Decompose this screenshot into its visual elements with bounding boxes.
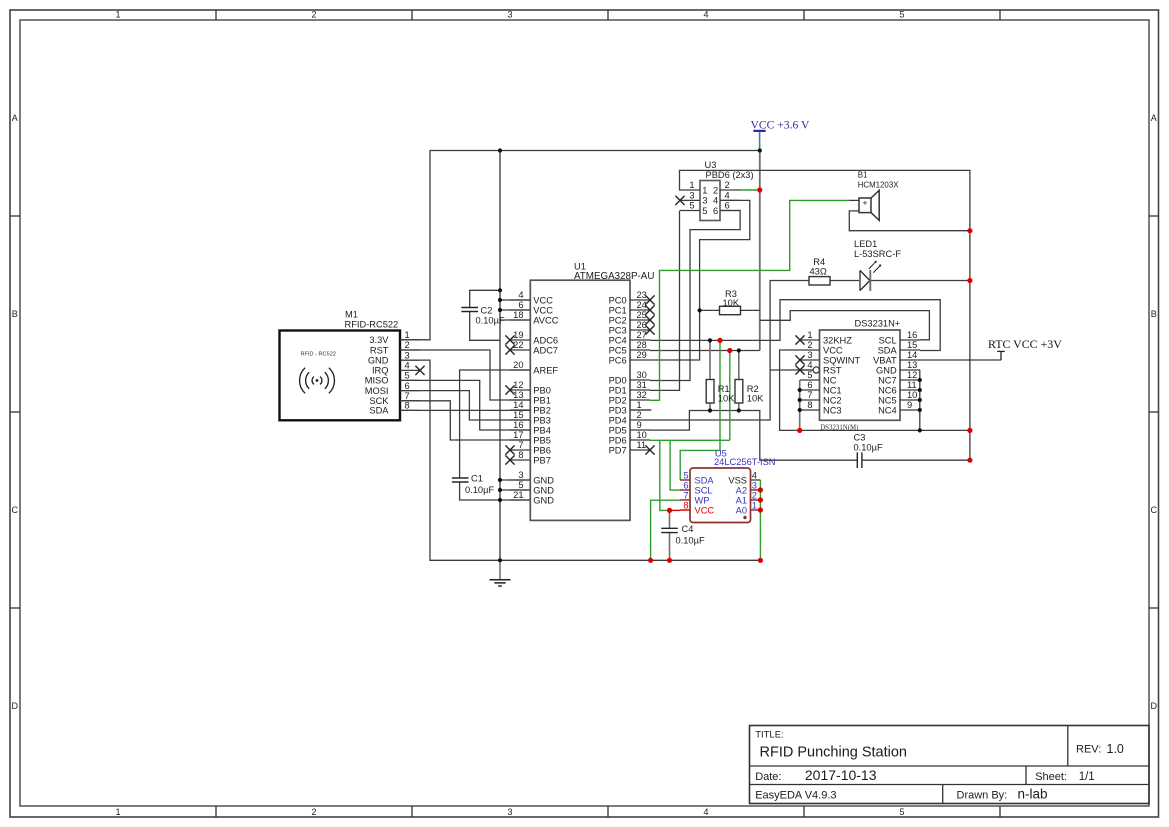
wire B1 negative pin to right rail	[849, 211, 970, 231]
svg-text:10: 10	[637, 430, 647, 440]
svg-text:7: 7	[807, 390, 812, 400]
wire DS3231 VCC down to C3 top rail	[780, 350, 970, 430]
svg-text:9: 9	[637, 420, 642, 430]
capacitor C1 0.10uF	[452, 474, 495, 496]
connector U3 PBD6 (2x3)	[680, 160, 754, 220]
wire U1 AVCC pin18	[500, 319, 530, 321]
wire U1 VCC pin6	[500, 309, 530, 311]
svg-text:8: 8	[807, 400, 812, 410]
svg-text:1: 1	[115, 10, 120, 20]
svg-text:PB0: PB0	[533, 385, 551, 395]
wire red U5 VCC pin8	[670, 509, 681, 511]
M1 antenna icon	[300, 368, 335, 394]
svg-text:26: 26	[637, 320, 647, 330]
svg-text:0.10µF: 0.10µF	[476, 316, 505, 326]
svg-text:U1: U1	[574, 261, 586, 271]
svg-text:RTC VCC +3V: RTC VCC +3V	[988, 337, 1062, 351]
svg-text:MISO: MISO	[365, 376, 389, 386]
resistor R2 10K	[735, 380, 764, 404]
svg-text:C3: C3	[854, 433, 866, 443]
svg-text:D: D	[11, 701, 18, 711]
wire C3 right side to right rail	[862, 459, 970, 461]
svg-text:PC0: PC0	[609, 295, 627, 305]
wire green PC5 riser to PD6 row	[729, 351, 731, 441]
svg-text:2: 2	[405, 340, 410, 350]
svg-text:6: 6	[807, 380, 812, 390]
svg-text:C1: C1	[471, 474, 483, 484]
svg-text:PBD6 (2x3): PBD6 (2x3)	[706, 170, 754, 180]
svg-text:3: 3	[507, 807, 512, 817]
svg-text:4: 4	[713, 196, 718, 206]
svg-text:C: C	[11, 505, 18, 515]
svg-text:16: 16	[907, 330, 917, 340]
svg-text:1: 1	[807, 330, 812, 340]
svg-text:32KHZ: 32KHZ	[823, 335, 852, 345]
wire green drop to U5 VCC junction	[660, 440, 670, 510]
svg-text:RST: RST	[370, 345, 389, 355]
svg-text:4: 4	[752, 471, 757, 481]
resistor R3 10K	[720, 289, 741, 315]
svg-text:NC5: NC5	[878, 395, 897, 405]
svg-text:DS3231N(M): DS3231N(M)	[820, 424, 858, 431]
svg-text:B: B	[1151, 309, 1157, 319]
svg-text:RST: RST	[823, 365, 842, 375]
svg-text:VCC: VCC	[533, 305, 553, 315]
svg-text:30: 30	[637, 370, 647, 380]
svg-text:VCC: VCC	[823, 345, 843, 355]
svg-text:SDA: SDA	[695, 475, 715, 485]
svg-text:27: 27	[637, 330, 647, 340]
svg-text:2: 2	[725, 180, 730, 190]
wire U1 GND pin21	[500, 499, 530, 501]
svg-text:VCC: VCC	[695, 505, 715, 515]
svg-text:4: 4	[703, 10, 708, 20]
svg-text:25: 25	[637, 310, 647, 320]
svg-text:GND: GND	[533, 495, 554, 505]
svg-text:NC: NC	[823, 375, 837, 385]
svg-text:TITLE:: TITLE:	[755, 729, 784, 740]
svg-text:7: 7	[683, 491, 688, 501]
wire U1 AREF to C1	[460, 370, 530, 478]
svg-text:NC7: NC7	[878, 375, 897, 385]
svg-text:1: 1	[405, 330, 410, 340]
svg-text:R4: R4	[813, 257, 825, 267]
wire M1 RST to U1 PB1	[400, 350, 530, 400]
wire green U1 PD2 to B1 buzzer	[650, 200, 850, 400]
resistor R4 43ohm	[809, 257, 830, 285]
svg-text:PB1: PB1	[533, 395, 551, 405]
svg-text:14: 14	[513, 400, 523, 410]
svg-text:U3: U3	[705, 160, 717, 170]
wire green U5 WP row and drop to ground rail	[651, 500, 680, 560]
svg-text:1: 1	[752, 501, 757, 511]
svg-text:PD7: PD7	[609, 445, 627, 455]
svg-text:GND: GND	[533, 475, 554, 485]
svg-text:13: 13	[907, 360, 917, 370]
wire R1 top lead	[709, 340, 711, 379]
svg-text:VCC +3.6 V: VCC +3.6 V	[751, 118, 810, 131]
wire R3 right lead	[741, 309, 760, 311]
svg-text:PB3: PB3	[533, 415, 551, 425]
svg-text:2: 2	[311, 807, 316, 817]
svg-text:n-lab: n-lab	[1018, 787, 1048, 802]
svg-text:23: 23	[637, 290, 647, 300]
wire U5 VSS stub wire	[751, 479, 761, 481]
svg-text:PD1: PD1	[609, 385, 627, 395]
svg-text:1: 1	[637, 400, 642, 410]
U3 no-connect X on pin3	[675, 196, 684, 205]
svg-text:5: 5	[899, 807, 904, 817]
svg-text:D: D	[1150, 701, 1157, 711]
wire R4 right lead to LED1 anode	[830, 280, 860, 282]
svg-text:L-53SRC-F: L-53SRC-F	[854, 249, 901, 259]
svg-text:32: 32	[637, 390, 647, 400]
svg-text:4: 4	[518, 290, 523, 300]
wire U1 PD4 to DS3231 RST riser / R4	[650, 281, 809, 421]
RTC IC DS3231N+	[795, 319, 920, 432]
module M1 RFID-RC522	[280, 310, 421, 421]
svg-text:10: 10	[907, 390, 917, 400]
svg-text:6: 6	[405, 381, 410, 391]
wire U1 PD3 stub wire	[630, 409, 652, 411]
svg-text:0.10µF: 0.10µF	[854, 442, 883, 452]
svg-text:Drawn By:: Drawn By:	[957, 789, 1008, 801]
svg-text:1.0: 1.0	[1107, 742, 1124, 756]
svg-text:SCL: SCL	[695, 485, 713, 495]
svg-text:VBAT: VBAT	[873, 355, 897, 365]
wire green U3 pin2 to VCC rail	[739, 189, 759, 191]
U5 polarity dot	[743, 516, 746, 519]
svg-text:VCC: VCC	[533, 295, 553, 305]
svg-text:A0: A0	[736, 505, 747, 515]
svg-text:C2: C2	[481, 305, 493, 315]
wire DS3231 left NC bus	[799, 380, 801, 430]
svg-text:10K: 10K	[723, 298, 740, 308]
svg-text:PB7: PB7	[533, 455, 551, 465]
svg-text:NC4: NC4	[878, 405, 897, 415]
svg-text:PC1: PC1	[609, 305, 627, 315]
svg-text:B: B	[12, 309, 18, 319]
svg-text:1: 1	[689, 180, 694, 190]
ground	[490, 560, 511, 586]
wire M1 MISO to U1 PB4	[400, 380, 530, 430]
svg-text:5: 5	[807, 370, 812, 380]
svg-text:+: +	[863, 198, 868, 208]
net flag RTC VCC +3V	[988, 337, 1062, 360]
svg-text:3: 3	[689, 191, 694, 201]
svg-text:C4: C4	[682, 524, 694, 534]
svg-text:3: 3	[702, 196, 707, 206]
svg-text:2: 2	[807, 340, 812, 350]
wire U1 PD1 to U3 pin5	[650, 211, 680, 391]
svg-text:PD6: PD6	[609, 435, 627, 445]
wire C1 bottom to rail	[460, 482, 500, 500]
svg-text:Date:: Date:	[755, 771, 781, 783]
svg-text:15: 15	[513, 410, 523, 420]
svg-text:6: 6	[683, 481, 688, 491]
svg-text:43Ω: 43Ω	[810, 266, 827, 276]
wire green PC4/SDA riser down to U5 SDA	[680, 340, 720, 480]
power flag VCC +3.6 V	[751, 118, 810, 150]
svg-text:A: A	[1151, 113, 1157, 123]
svg-text:8: 8	[683, 501, 688, 511]
wire RST branch to DS3231 pin4	[770, 369, 813, 371]
svg-text:PD5: PD5	[609, 425, 627, 435]
svg-text:8: 8	[405, 401, 410, 411]
wire LED1 cathode to right rail	[870, 280, 970, 282]
svg-text:8: 8	[518, 450, 523, 460]
wire U3 pin1 riser, top-right rail and right rail x=970	[680, 170, 970, 460]
svg-text:NC6: NC6	[878, 385, 897, 395]
svg-text:0.10µF: 0.10µF	[676, 535, 705, 545]
svg-text:RFID Punching Station: RFID Punching Station	[760, 744, 908, 760]
svg-text:Sheet:: Sheet:	[1035, 771, 1067, 783]
svg-text:GND: GND	[368, 355, 389, 365]
wire DS3231 GND pin13 down right NC bus	[919, 370, 921, 430]
svg-text:12: 12	[907, 370, 917, 380]
wire VCC net: M1 pin1 3.3V riser and top rail	[400, 151, 760, 340]
wire green U1 PD6 row	[650, 439, 730, 441]
svg-text:PD4: PD4	[609, 415, 627, 425]
svg-text:7: 7	[405, 391, 410, 401]
svg-text:2: 2	[713, 185, 718, 195]
wire C4 top lead	[669, 510, 671, 528]
svg-text:12: 12	[513, 380, 523, 390]
wire VCC rail drop x=760 to R3/PC5	[759, 151, 761, 351]
wire M1 SCK to U1 PB5	[400, 401, 530, 440]
svg-text:AVCC: AVCC	[533, 315, 558, 325]
svg-text:ADC6: ADC6	[533, 335, 558, 345]
svg-text:0.10µF: 0.10µF	[465, 485, 494, 495]
svg-text:B1: B1	[858, 171, 868, 180]
svg-text:3: 3	[807, 350, 812, 360]
EEPROM U5 24LC256T-ISN	[680, 449, 776, 523]
svg-text:10K: 10K	[747, 394, 764, 404]
svg-text:PC2: PC2	[609, 315, 627, 325]
svg-text:REV:: REV:	[1076, 744, 1101, 756]
svg-text:6: 6	[713, 206, 718, 216]
wire green drop to U5 SCL	[670, 440, 680, 490]
wire DS3231 VBAT to RTC flag	[920, 359, 1001, 361]
svg-text:ADC7: ADC7	[533, 345, 558, 355]
svg-text:A: A	[12, 113, 18, 123]
svg-text:15: 15	[907, 340, 917, 350]
svg-text:AREF: AREF	[533, 365, 558, 375]
svg-text:24: 24	[637, 300, 647, 310]
svg-text:11: 11	[907, 380, 917, 390]
svg-text:PD0: PD0	[609, 375, 627, 385]
svg-text:31: 31	[637, 380, 647, 390]
wire R3 left lead	[700, 309, 720, 311]
svg-text:5: 5	[683, 471, 688, 481]
wire main vertical rail x=500 (VCC/GND column)	[499, 151, 501, 561]
LED LED1 L-53SRC-F	[854, 239, 901, 291]
svg-text:2: 2	[311, 10, 316, 20]
svg-text:NC3: NC3	[823, 405, 842, 415]
svg-text:4: 4	[807, 360, 812, 370]
svg-text:PB5: PB5	[533, 435, 551, 445]
svg-text:19: 19	[513, 330, 523, 340]
svg-text:3: 3	[752, 481, 757, 491]
svg-text:11: 11	[637, 440, 647, 450]
wire M1 GND to bottom ground rail	[400, 360, 760, 560]
svg-text:20: 20	[513, 360, 523, 370]
wire U1 PD5 to R1/R2 rail and line to C3	[650, 411, 857, 461]
svg-text:5: 5	[689, 201, 694, 211]
svg-text:SCK: SCK	[369, 396, 389, 406]
node junction dots (red)	[648, 187, 973, 563]
svg-text:PC5: PC5	[609, 345, 627, 355]
svg-text:29: 29	[637, 350, 647, 360]
M1 no-connect X on IRQ	[415, 366, 424, 375]
buzzer B1 HCM1203X	[849, 171, 899, 221]
svg-text:5: 5	[405, 371, 410, 381]
wire R1 bottom lead	[709, 403, 711, 411]
svg-text:VSS: VSS	[728, 475, 747, 485]
svg-text:24LC256T-ISN: 24LC256T-ISN	[714, 457, 776, 467]
wire M1 MOSI to U1 PB3	[400, 391, 530, 420]
svg-text:PD3: PD3	[609, 405, 627, 415]
wire DS3231 SCL loop to VCC rail	[760, 311, 930, 340]
svg-text:3: 3	[405, 350, 410, 360]
svg-text:DS3231N+: DS3231N+	[855, 319, 901, 329]
svg-text:SDA: SDA	[878, 345, 898, 355]
svg-text:PC3: PC3	[609, 325, 627, 335]
svg-text:RFID-RC522: RFID-RC522	[345, 320, 399, 330]
svg-text:6: 6	[725, 201, 730, 211]
capacitor C4 0.10uF	[661, 524, 705, 546]
svg-text:C: C	[1150, 505, 1157, 515]
svg-text:HCM1203X: HCM1203X	[858, 180, 900, 189]
svg-text:PD2: PD2	[609, 395, 627, 405]
wire U1 GND pin3	[500, 479, 530, 481]
svg-text:GND: GND	[533, 485, 554, 495]
wire green U5 VSS/A2/A1/A0 down to ground rail	[759, 480, 761, 560]
svg-text:PB2: PB2	[533, 405, 551, 415]
svg-text:2: 2	[637, 410, 642, 420]
wire U1 PC5 row to VCC rail	[650, 350, 760, 352]
wire R2 bottom lead	[738, 403, 740, 411]
capacitor C2 0.10uF	[461, 305, 505, 325]
svg-text:3: 3	[507, 10, 512, 20]
svg-text:PC4: PC4	[609, 335, 627, 345]
svg-text:PB4: PB4	[533, 425, 551, 435]
svg-text:2017-10-13: 2017-10-13	[805, 767, 877, 783]
svg-text:1: 1	[115, 807, 120, 817]
svg-text:ATMEGA328P-AU: ATMEGA328P-AU	[574, 271, 654, 282]
wire U1 PC6 to U3 pin4 via R3 column	[650, 200, 750, 360]
svg-text:3.3V: 3.3V	[369, 335, 389, 345]
capacitor C3 0.10uF	[854, 433, 883, 468]
svg-text:6: 6	[518, 300, 523, 310]
svg-text:9: 9	[907, 400, 912, 410]
svg-text:PB6: PB6	[533, 445, 551, 455]
wire U1 GND pin5	[500, 489, 530, 491]
svg-text:A1: A1	[736, 495, 747, 505]
svg-text:NC1: NC1	[823, 385, 842, 395]
svg-text:4: 4	[405, 361, 410, 371]
svg-text:PC6: PC6	[609, 355, 627, 365]
svg-text:MOSI: MOSI	[365, 386, 389, 396]
svg-text:28: 28	[637, 340, 647, 350]
wire M1 SDA to U1 PB2	[400, 409, 530, 411]
svg-text:SCL: SCL	[879, 335, 897, 345]
svg-text:1/1: 1/1	[1079, 771, 1095, 783]
svg-text:4: 4	[725, 191, 730, 201]
svg-text:16: 16	[513, 420, 523, 430]
svg-text:10K: 10K	[718, 394, 735, 404]
svg-text:EasyEDA V4.9.3: EasyEDA V4.9.3	[755, 789, 836, 801]
svg-text:13: 13	[513, 390, 523, 400]
svg-text:WP: WP	[695, 495, 710, 505]
svg-text:2: 2	[752, 491, 757, 501]
svg-text:NC2: NC2	[823, 395, 842, 405]
svg-text:RFID - RC522: RFID - RC522	[301, 352, 336, 358]
svg-text:22: 22	[513, 340, 523, 350]
svg-text:17: 17	[513, 430, 523, 440]
svg-text:LED1: LED1	[854, 239, 877, 249]
wire U1 PC4 to DS3231 SDA	[650, 300, 940, 351]
svg-text:1: 1	[702, 185, 707, 195]
svg-text:7: 7	[518, 440, 523, 450]
wire C4 bottom lead	[669, 533, 671, 561]
svg-text:5: 5	[518, 480, 523, 490]
node junction dots (black)	[498, 148, 922, 562]
DS3231 RST inversion bubble	[813, 367, 819, 373]
svg-text:SQWINT: SQWINT	[823, 355, 861, 365]
svg-text:M1: M1	[345, 310, 358, 320]
svg-text:4: 4	[703, 807, 708, 817]
wire C2 bottom lead to rail	[470, 312, 500, 341]
resistor R1 10K	[706, 380, 735, 404]
svg-text:GND: GND	[876, 365, 897, 375]
wire C2 top lead to rail	[470, 290, 500, 307]
svg-text:21: 21	[513, 490, 523, 500]
IC U1 ATMEGA328P-AU	[505, 261, 654, 520]
svg-text:5: 5	[899, 10, 904, 20]
svg-text:18: 18	[513, 310, 523, 320]
wire U1 PD0 to U3 pin6	[650, 211, 740, 381]
svg-text:3: 3	[518, 470, 523, 480]
svg-text:5: 5	[702, 206, 707, 216]
svg-text:IRQ: IRQ	[372, 366, 389, 376]
title block	[750, 726, 1150, 804]
wire U1 VCC pin4	[500, 299, 530, 301]
svg-text:A2: A2	[736, 485, 747, 495]
wire R2 top lead	[738, 351, 740, 380]
svg-text:SDA: SDA	[369, 406, 389, 416]
svg-text:14: 14	[907, 350, 917, 360]
